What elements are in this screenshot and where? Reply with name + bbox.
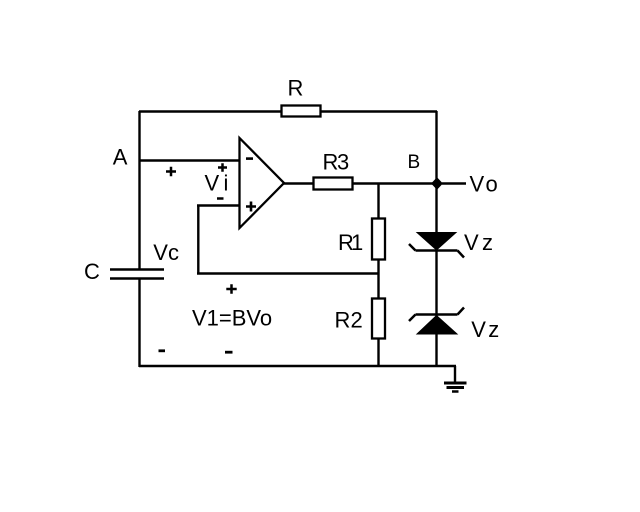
wire node B to Vo bbox=[442, 182, 466, 184]
plus sign at node A bbox=[166, 167, 176, 176]
minus sign bottom left Vc polarity bbox=[159, 349, 166, 352]
svg-text:V: V bbox=[471, 317, 486, 342]
svg-text:z: z bbox=[482, 230, 493, 255]
svg-text:V: V bbox=[470, 172, 485, 197]
wire top rail A to right rail bbox=[139, 110, 437, 112]
minus sign bottom middle V1 polarity bbox=[225, 351, 233, 354]
wire op-amp non-inverting input bbox=[197, 204, 240, 206]
svg-text:B: B bbox=[408, 152, 421, 173]
svg-text:c: c bbox=[168, 240, 179, 265]
resistor R1 bbox=[338, 219, 385, 260]
resistor R3 bbox=[314, 150, 353, 190]
zener diode Vz lower bbox=[409, 308, 499, 343]
plus sign V1 polarity bbox=[226, 284, 236, 294]
svg-text:V: V bbox=[464, 230, 479, 255]
wire feedback vertical from + input down bbox=[197, 206, 199, 275]
wire bottom rail bbox=[139, 365, 456, 367]
svg-text:V: V bbox=[153, 240, 168, 265]
op-amp U1 bbox=[240, 138, 285, 228]
svg-text:R: R bbox=[323, 150, 339, 175]
zener diode Vz upper bbox=[409, 230, 493, 258]
node B junction dot bbox=[431, 177, 443, 189]
ground bbox=[444, 383, 467, 392]
svg-text:R: R bbox=[335, 308, 351, 333]
wire op-amp output to node B bbox=[283, 182, 437, 184]
svg-text:i: i bbox=[224, 171, 229, 196]
wire right rail through zeners bbox=[435, 111, 437, 367]
wire node A to op-amp inverting input bbox=[139, 159, 240, 161]
wire feedback horizontal to R1-R2 junction bbox=[197, 272, 379, 274]
wire R1 R2 branch vertical bbox=[377, 184, 379, 368]
wire ground stem bbox=[454, 366, 456, 382]
wire left rail upper segment bbox=[138, 111, 140, 269]
svg-text:V: V bbox=[205, 171, 220, 196]
svg-text:o: o bbox=[486, 172, 498, 197]
capacitor C bbox=[84, 259, 164, 284]
resistor R2 bbox=[335, 299, 386, 339]
minus sign below Vi bbox=[217, 197, 224, 200]
svg-text:C: C bbox=[84, 259, 100, 284]
svg-text:A: A bbox=[113, 145, 128, 170]
svg-text:V1=BVo: V1=BVo bbox=[192, 306, 272, 331]
svg-text:R: R bbox=[288, 76, 304, 101]
svg-text:1: 1 bbox=[351, 230, 363, 255]
svg-text:3: 3 bbox=[337, 150, 349, 175]
resistor R bbox=[282, 76, 321, 117]
svg-text:z: z bbox=[488, 317, 499, 342]
wire left rail lower segment bbox=[138, 278, 140, 367]
plus sign above Vi bbox=[218, 163, 227, 172]
svg-text:2: 2 bbox=[351, 308, 363, 333]
